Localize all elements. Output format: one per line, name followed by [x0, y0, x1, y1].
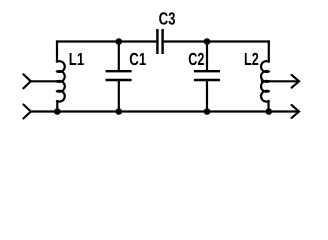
- junction node L1 bottom: [54, 108, 61, 115]
- wire top rail left (L1 top to C3): [56, 40, 156, 42]
- wire top rail right (C3 to L2 top): [164, 40, 270, 42]
- output arrow top: [292, 75, 299, 88]
- svg-text:C1: C1: [129, 49, 146, 69]
- capacitor C3: [156, 29, 158, 54]
- inductor L1: [56, 61, 65, 101]
- wire bottom rail: [31, 110, 298, 112]
- svg-text:L2: L2: [244, 49, 259, 69]
- junction node C2 bottom: [204, 108, 211, 115]
- capacitor C1: [118, 42, 120, 72]
- wire L1 bottom lead: [56, 100, 58, 111]
- junction node C1 top: [116, 38, 123, 45]
- svg-text:C2: C2: [188, 49, 204, 69]
- svg-text:L1: L1: [69, 49, 85, 69]
- wire L2 top lead: [268, 40, 270, 62]
- output arrow bottom: [292, 105, 299, 118]
- junction node L2 bottom: [266, 108, 273, 115]
- junction node C1 bottom: [116, 108, 123, 115]
- wire L1 top lead: [56, 40, 58, 62]
- wire input tap to L1: [31, 80, 60, 82]
- svg-text:C3: C3: [159, 9, 176, 29]
- junction node C2 top: [204, 38, 211, 45]
- wire output tap from L2: [261, 80, 298, 82]
- wire L2 bottom lead: [267, 100, 269, 111]
- input terminal top chevron: [23, 74, 30, 88]
- inductor L2: [261, 61, 270, 101]
- input terminal bottom chevron: [23, 105, 30, 119]
- capacitor C2: [206, 42, 208, 72]
